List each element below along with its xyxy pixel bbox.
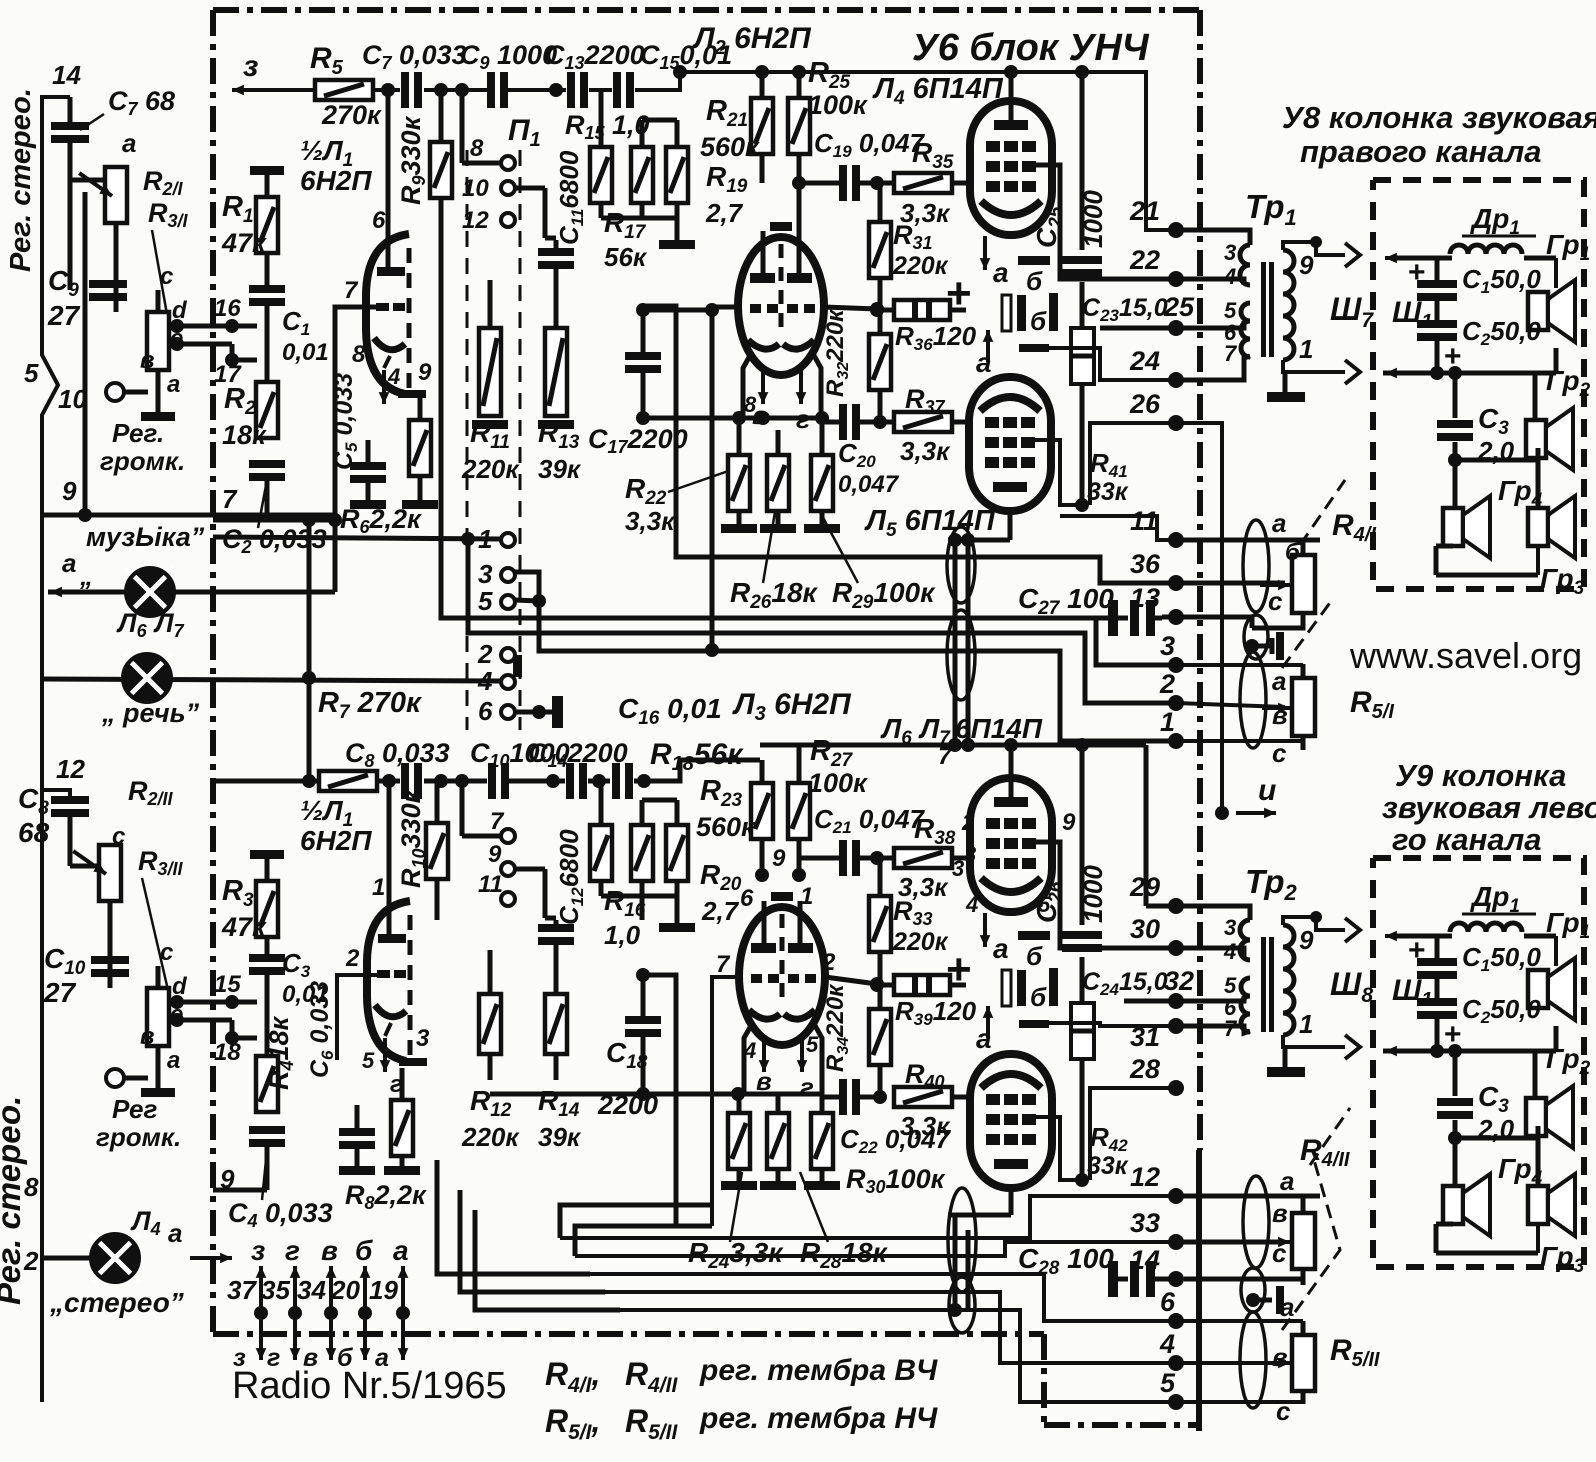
svg-text:3,3к: 3,3к (625, 506, 676, 536)
terminal 36 (1168, 575, 1184, 591)
wire C20 (820, 420, 839, 425)
svg-text:С126800: С126800 (554, 829, 587, 925)
capacitor C14 (566, 763, 574, 799)
wire 18 (177, 1018, 232, 1023)
resistor R38 (894, 848, 952, 868)
svg-text:а: а (168, 1218, 182, 1248)
wire 28 (1090, 1088, 1176, 1180)
dot muz (328, 513, 342, 527)
svg-text:R2618к: R2618к (730, 577, 819, 613)
resistor R2 (256, 382, 278, 438)
capacitor C25 (1062, 256, 1102, 264)
svg-text:6П14П: 6П14П (955, 713, 1043, 744)
svg-text:R36120: R36120 (895, 321, 977, 354)
transformer Tr2 secondary (1283, 925, 1294, 1035)
svg-text:1: 1 (1160, 707, 1175, 737)
svg-text:39к: 39к (538, 1122, 582, 1152)
capacitor C2 (249, 460, 285, 468)
wire top U9 (1396, 934, 1452, 939)
terminal 3u (1168, 657, 1184, 673)
svg-text:С9 1000: С9 1000 (460, 40, 557, 73)
svg-text:560к: 560к (700, 132, 760, 162)
svg-text:а: а (62, 548, 76, 578)
resistor R42 (1071, 1003, 1094, 1059)
wire R2I down (114, 223, 119, 312)
capacitor C1 (249, 285, 285, 293)
potentiometer volume II (147, 988, 169, 1046)
wire term4 long (605, 1292, 1176, 1363)
capacitor C3b U9 (1437, 1098, 1473, 1106)
dot17 (225, 353, 239, 367)
dots lower bus (434, 774, 448, 788)
capacitor C19 (839, 165, 847, 201)
svg-text:R32220к: R32220к (822, 308, 852, 397)
svg-text:2: 2 (23, 1246, 39, 1276)
resistor R21 (751, 98, 773, 154)
capacitor C11 (538, 248, 574, 256)
resistor R11 (479, 328, 501, 416)
svg-text:2,7: 2,7 (701, 896, 740, 926)
lamp L6 (muzyka) (126, 568, 174, 616)
grid lead L3 left (712, 977, 739, 1226)
svg-text:1,0: 1,0 (604, 920, 641, 950)
svg-text:С116800: С116800 (554, 150, 587, 245)
potentiometer R5/II (1292, 1335, 1315, 1391)
svg-text:100к: 100к (808, 768, 868, 798)
cathode leads L3 (762, 1038, 766, 1072)
capacitor C7 (401, 72, 409, 108)
svg-text:www.savel.org: www.savel.org (1349, 635, 1582, 676)
svg-text:1000: 1000 (1078, 190, 1108, 248)
wire to R2I (70, 178, 107, 183)
capacitor C8a 68 (51, 796, 89, 804)
svg-text:13: 13 (1130, 583, 1160, 613)
wire contact1 (213, 537, 501, 539)
svg-text:4: 4 (1159, 1329, 1175, 1359)
pot contacts II (170, 995, 184, 1009)
choke Dr1 coil U9 (1450, 923, 1522, 932)
capacitor C22 (839, 1079, 847, 1115)
svg-text:б: б (1030, 306, 1047, 336)
wire term5 long (620, 1310, 1176, 1402)
resistor R20b (666, 825, 688, 881)
svg-text:6Н2П: 6Н2П (300, 165, 372, 196)
potentiometer R5/I (1292, 678, 1315, 736)
capacitor C15 (613, 72, 621, 108)
svg-text:громк.: громк. (96, 1122, 181, 1152)
wire C12 (554, 920, 559, 927)
cap C24 b (1049, 968, 1058, 1006)
capacitor C13 (567, 72, 575, 108)
wire L5 grid right (1034, 440, 1082, 505)
svg-text:4: 4 (1223, 939, 1236, 964)
wire 26 (1090, 423, 1176, 505)
wire 25 (1100, 326, 1176, 331)
potentiometer volume I (147, 312, 169, 370)
svg-text:R30100к: R30100к (846, 1164, 946, 1197)
resistor R28 (767, 1113, 789, 1169)
transformer Tr1 secondary (1283, 250, 1294, 360)
svg-text:32: 32 (1164, 966, 1194, 996)
wire under L2 (643, 416, 822, 421)
svg-text:0,01: 0,01 (282, 339, 329, 366)
solid bus right (1196, 1150, 1202, 1431)
svg-text:R15 1,0: R15 1,0 (565, 110, 650, 143)
dash link R5II (1282, 1160, 1340, 1330)
svg-text:а: а (167, 1047, 180, 1074)
wire L7 anode top (1009, 1188, 1014, 1215)
svg-text:е: е (170, 325, 183, 352)
svg-text:рег. тембра ВЧ: рег. тембра ВЧ (699, 1354, 938, 1387)
wire term33 long (575, 1242, 1176, 1256)
wire c6 gnd (515, 710, 552, 715)
capacitor C6 (339, 1128, 375, 1136)
svg-text:с: с (160, 263, 173, 290)
svg-text:4: 4 (743, 1038, 756, 1063)
svg-text:звуковая лево-: звуковая лево- (1382, 790, 1596, 825)
svg-text:34: 34 (297, 1275, 326, 1305)
svg-text:R34220к: R34220к (822, 983, 852, 1072)
wire lower bus (213, 779, 319, 784)
svg-text:5: 5 (24, 358, 39, 388)
svg-text:Рег: Рег (112, 1094, 157, 1124)
arrow a up (986, 330, 990, 362)
terminal 4b (1168, 1355, 1184, 1371)
svg-text:R62,2к: R62,2к (340, 504, 422, 537)
resistor R19 (666, 147, 688, 203)
cathode lead L4 (983, 236, 987, 270)
wire mid2 U9 (1435, 1018, 1440, 1051)
ground Tr1 (1283, 372, 1288, 392)
svg-text:С2415,0: С2415,0 (1082, 968, 1168, 999)
wire R36 (877, 308, 894, 313)
dash link R4II (1310, 1108, 1350, 1165)
svg-text:а: а (1280, 1292, 1294, 1322)
wire c9b (515, 867, 545, 872)
svg-text:8: 8 (352, 341, 366, 368)
svg-text:220к: 220к (461, 454, 520, 484)
svg-text:28: 28 (1129, 1054, 1160, 1084)
anode lead L1 (386, 90, 391, 270)
terminal 14 (1168, 1271, 1184, 1287)
capacitor C14b (612, 763, 620, 799)
tube L3 6N2P (739, 907, 825, 1045)
svg-text:з: з (251, 1235, 265, 1266)
bundle wires mid (953, 540, 958, 745)
svg-text:а: а (393, 1235, 409, 1266)
cable ellipse m2 (947, 610, 975, 700)
capacitor C3b U8 (1437, 420, 1473, 428)
svg-text:9: 9 (220, 1164, 235, 1194)
arrow lamp1 (50, 590, 78, 594)
resistor R25 (788, 98, 810, 154)
wires R4II (1176, 1194, 1320, 1199)
contact 6 (501, 705, 515, 719)
svg-text:d: d (172, 973, 188, 1000)
capacitor C9a 27 (89, 280, 127, 288)
anode lead L1b (387, 781, 392, 937)
transformer Tr1 primary (1240, 245, 1250, 285)
contact 8 (501, 156, 515, 170)
arrow i (1236, 811, 1276, 815)
wire C17 (641, 310, 646, 354)
wire Tr1 sec out (1283, 242, 1345, 255)
cable ellipse 5 (1241, 1268, 1265, 1312)
b bar L4 (1018, 256, 1050, 265)
grid lead L2 right (824, 307, 877, 309)
wire R35 tube (952, 181, 970, 186)
terminal 29 (1168, 898, 1184, 914)
svg-text:R39120: R39120 (895, 996, 977, 1029)
svg-text:12: 12 (462, 207, 489, 234)
wires R4I (1176, 538, 1320, 543)
svg-text:Л2 6Н2П: Л2 6Н2П (692, 22, 812, 59)
arrow a up b (986, 1006, 990, 1038)
svg-text:Л3 6Н2П: Л3 6Н2П (732, 688, 852, 725)
wire 31 (1048, 1023, 1176, 1026)
contact 10 (501, 181, 515, 195)
main unit border frame (213, 7, 1200, 13)
svg-text:а: а (993, 257, 1009, 288)
dot i (1215, 806, 1229, 820)
svg-text:3: 3 (1224, 915, 1236, 940)
resistor R34 (869, 1009, 891, 1065)
resistor R13 (545, 328, 567, 416)
resistor R29 (767, 455, 789, 511)
svg-text:а: а (1272, 508, 1286, 538)
wire L6 grid right (1035, 842, 1176, 948)
svg-text:с: с (160, 939, 173, 966)
contact 5 (501, 595, 515, 609)
cable ellipse 2 (1244, 615, 1268, 659)
wire bottom gr2 U8 (1383, 371, 1556, 376)
arrow R5II (1262, 1361, 1290, 1365)
grid lead L3 right (825, 977, 877, 984)
speaker Gr3 U9 (1528, 1186, 1548, 1224)
svg-text:музЬіка”: музЬіка” (86, 522, 205, 552)
svg-text:„ речь”: „ речь” (101, 698, 200, 728)
svg-text:3: 3 (478, 559, 493, 589)
svg-text:С16 0,01: С16 0,01 (618, 693, 722, 729)
svg-text:21: 21 (1129, 196, 1160, 226)
resistor R12 (479, 994, 501, 1054)
pentode L5 (969, 377, 1051, 511)
wire term13 (1162, 615, 1176, 620)
triode 1/2 L1 b (367, 901, 410, 1061)
resistor R24t (811, 455, 833, 511)
svg-text:в: в (321, 1235, 338, 1266)
wire C8 branch (42, 790, 70, 798)
svg-text:5: 5 (806, 1032, 819, 1057)
terminal 24 (1168, 372, 1184, 388)
wire C19 (799, 181, 839, 186)
svg-text:+: + (1408, 934, 1426, 967)
dash link R4I (1300, 480, 1345, 545)
anode lead L4 (1009, 72, 1014, 120)
svg-text:2: 2 (1159, 669, 1175, 699)
svg-text:30: 30 (1130, 914, 1160, 944)
svg-text:33: 33 (1130, 1208, 1160, 1238)
pot contacts I (170, 319, 184, 333)
ground pot II (156, 1076, 161, 1088)
resistor R32 (869, 334, 891, 390)
svg-text:R9330к: R9330к (396, 115, 429, 205)
resistor R3 (256, 881, 278, 937)
wire R38 tube (952, 856, 970, 861)
resistor R15b (590, 147, 612, 203)
svg-text:20: 20 (330, 1275, 360, 1305)
wire top U8 (1396, 256, 1452, 261)
pentode L7 (970, 1054, 1052, 1188)
svg-text:б: б (1026, 266, 1043, 296)
svg-text:Рег. стерео.: Рег. стерео. (0, 1096, 27, 1305)
wire C6 (355, 1105, 360, 1128)
svg-text:+: + (946, 269, 972, 318)
capacitor C21 (839, 840, 847, 876)
svg-text:С27 100: С27 100 (1018, 583, 1114, 619)
svg-text:в: в (1272, 1342, 1288, 1372)
wire R39 (877, 983, 894, 988)
svg-text:16: 16 (214, 295, 241, 322)
arrow in top U9 (1385, 934, 1411, 938)
capacitor C8 (401, 763, 409, 799)
capacitor C10 (488, 763, 496, 799)
svg-text:100к: 100к (808, 90, 868, 120)
cable ellipse 1 (1243, 520, 1269, 612)
capacitor C12 (538, 924, 574, 932)
terminal circle II (106, 1069, 124, 1087)
svg-text:С4 0,033: С4 0,033 (228, 1198, 333, 1231)
resistor R26 (728, 455, 750, 511)
speaker Gr4 U9 (1443, 1186, 1463, 1224)
left input rail wire (42, 97, 70, 1402)
svg-text:рег. тембра НЧ: рег. тембра НЧ (699, 1402, 938, 1435)
resistor R2/I (105, 167, 127, 223)
wire term36 (643, 306, 1176, 583)
wires speakers U9 (1536, 1126, 1541, 1138)
terminal 30 (1168, 940, 1184, 956)
svg-text:12: 12 (56, 754, 85, 784)
wire L5 anode top (1008, 511, 1013, 540)
svg-text:Л5 6П14П: Л5 6П14П (864, 505, 996, 541)
wire 15 (177, 1000, 257, 1005)
capacitor C2b U8 (1417, 320, 1457, 328)
svg-text:„: „ (79, 561, 93, 591)
wire mid lower (490, 1092, 823, 1097)
svg-text:33к: 33к (1087, 1152, 1129, 1180)
svg-text:3: 3 (952, 856, 964, 881)
svg-text:С6 0,033: С6 0,033 (306, 981, 337, 1078)
svg-text:б: б (355, 1235, 373, 1266)
svg-text:в: в (756, 1066, 772, 1096)
svg-text:С7 68: С7 68 (108, 86, 175, 119)
svg-text:33к: 33к (1087, 478, 1129, 506)
resistor R24 (728, 1113, 750, 1169)
svg-text:з: з (243, 50, 258, 83)
svg-text:47к: 47к (221, 912, 267, 942)
dash link R5I (1282, 600, 1332, 668)
resistor R36 (120) (894, 300, 950, 320)
svg-text:3: 3 (1160, 631, 1175, 661)
svg-text:4: 4 (477, 666, 493, 696)
svg-text:29: 29 (1129, 872, 1160, 902)
svg-text:18: 18 (214, 1039, 241, 1066)
wire Gr2 up U8 (1533, 373, 1538, 420)
svg-text:г: г (800, 1072, 814, 1102)
svg-text:С150,0: С150,0 (1462, 264, 1541, 297)
wire trio b (601, 894, 677, 899)
svg-text:1: 1 (800, 883, 813, 910)
grid lead L2 left (712, 307, 738, 650)
arrow R4I (1260, 583, 1290, 587)
wires R5II (1176, 1319, 1303, 1323)
resistor R9 (430, 142, 452, 198)
svg-text:7: 7 (344, 277, 359, 304)
wire lamp2 (42, 679, 500, 681)
svg-text:3,3к: 3,3к (900, 436, 951, 466)
svg-text:Radio Nr.5/1965: Radio Nr.5/1965 (232, 1365, 507, 1407)
Tr2 core (1261, 937, 1266, 1032)
resistor R39 (120) (894, 975, 950, 995)
svg-text:0,047: 0,047 (838, 471, 900, 498)
svg-text:а: а (167, 371, 180, 398)
contact 4 (501, 675, 515, 689)
cable ellipse 3 (1240, 652, 1266, 748)
resistor R14 (545, 994, 567, 1054)
svg-text:26: 26 (1129, 389, 1161, 419)
wire term1 (515, 572, 539, 601)
wires speakers U8 (1536, 448, 1541, 460)
resistor R23 (751, 783, 773, 839)
svg-text:7: 7 (1224, 341, 1238, 366)
svg-text:R1856к: R1856к (650, 738, 744, 775)
svg-text:1: 1 (1299, 334, 1313, 364)
wire 26 right (1176, 423, 1222, 813)
svg-text:У8 колонка звуковая: У8 колонка звуковая (1282, 100, 1596, 135)
dot lower1 (302, 671, 316, 685)
wire term6 long (590, 1274, 1176, 1321)
wire Gr2 up U9 (1533, 1051, 1538, 1098)
terminal 28 (1168, 1080, 1184, 1096)
terminal 13 (1168, 609, 1184, 625)
wire trio (601, 216, 677, 221)
contact 11b (501, 892, 515, 906)
svg-text:2,7: 2,7 (705, 198, 744, 228)
svg-text:6: 6 (1160, 1287, 1176, 1317)
arrow stereo (190, 1256, 232, 1260)
svg-text:6: 6 (478, 696, 493, 726)
svg-text:39к: 39к (538, 454, 582, 484)
svg-text:14: 14 (52, 60, 81, 90)
wire R3C3 col (265, 972, 270, 1056)
wire 17 (177, 342, 232, 347)
svg-text:11: 11 (1130, 506, 1158, 536)
svg-text:1000: 1000 (1078, 865, 1108, 923)
terminal 22 (1168, 271, 1184, 287)
svg-text:У9 колонка: У9 колонка (1395, 758, 1566, 793)
arrow into R2/I (79, 173, 112, 196)
svg-text:го канала: го канала (1392, 822, 1542, 857)
svg-text:R7 270к: R7 270к (318, 687, 422, 723)
svg-text:а: а (1272, 666, 1286, 696)
svg-text:громк.: громк. (100, 446, 185, 476)
gnd mid pots 2 (1246, 1293, 1260, 1307)
svg-text:2: 2 (345, 945, 360, 972)
speaker Gr2 U8 (1526, 420, 1546, 458)
wire C2 down (265, 477, 270, 520)
svg-text:68: 68 (18, 817, 50, 848)
svg-text:+: + (1408, 256, 1426, 289)
